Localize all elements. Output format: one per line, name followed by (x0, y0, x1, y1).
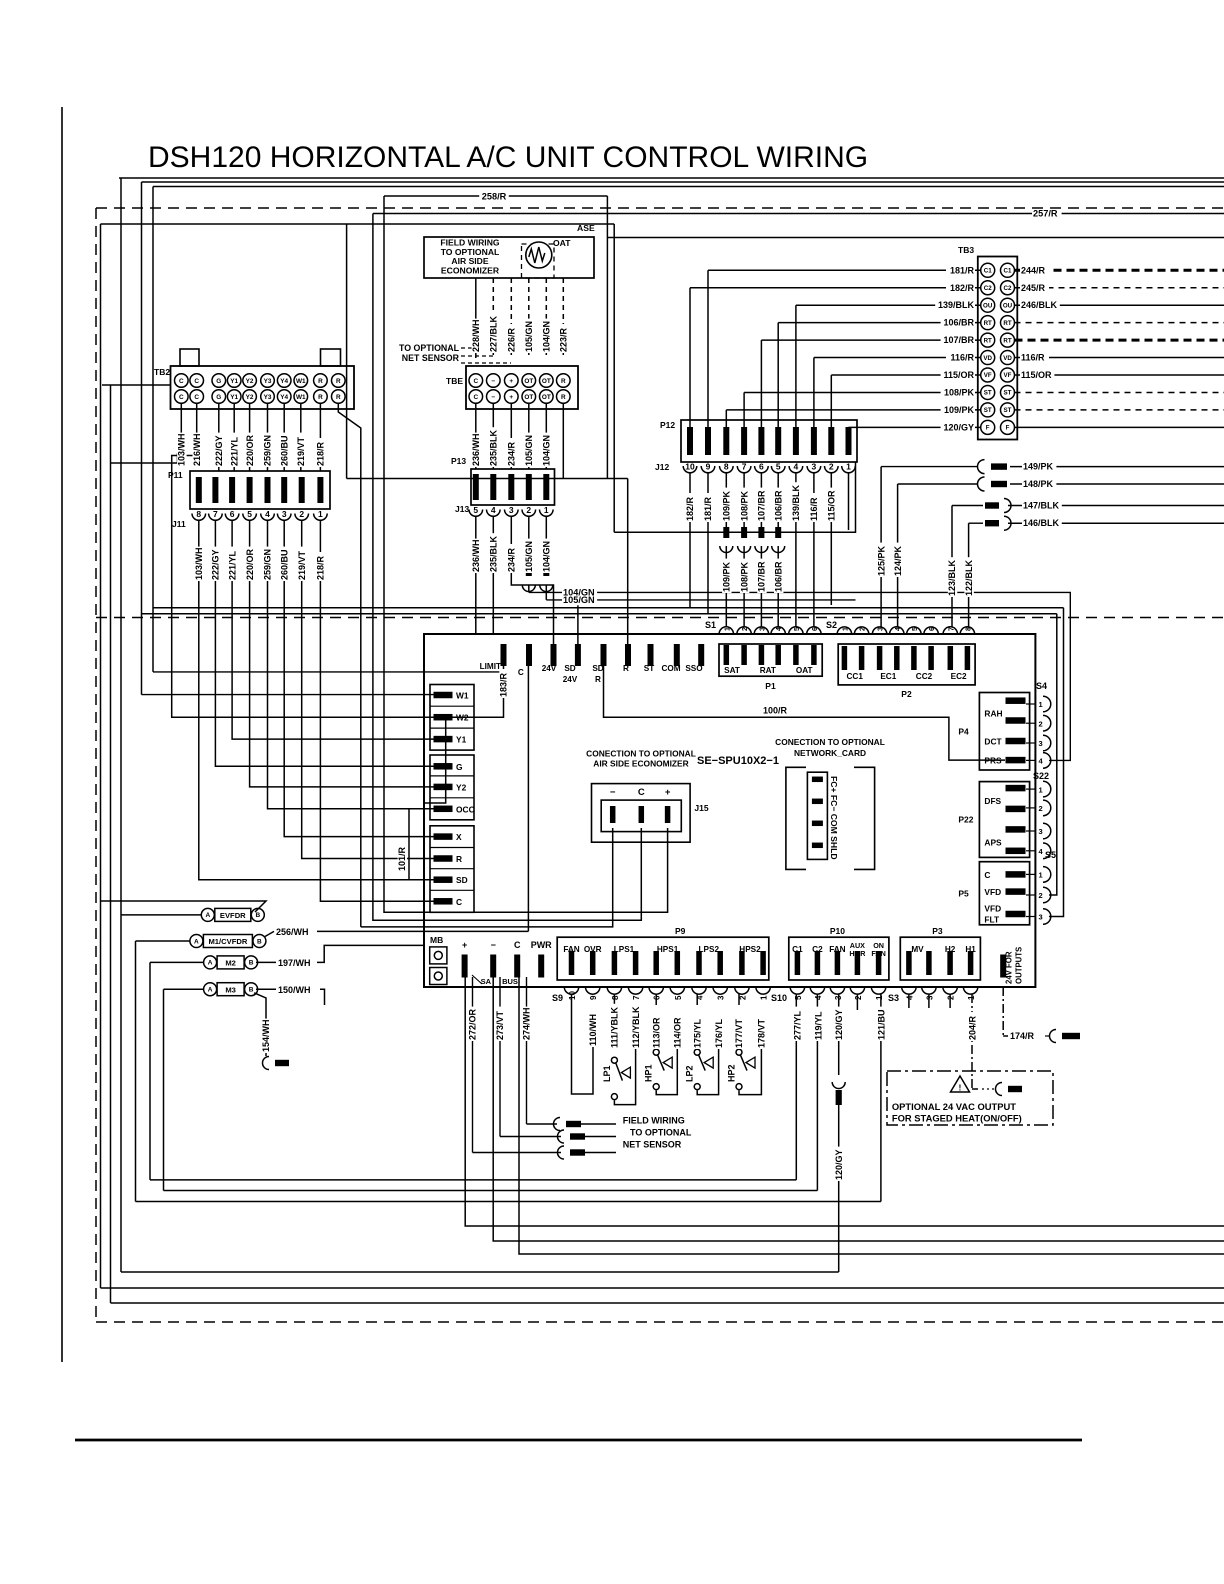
svg-text:3: 3 (509, 505, 514, 515)
svg-text:109/PK: 109/PK (722, 561, 732, 592)
svg-text:259/GN: 259/GN (263, 435, 273, 466)
svg-text:104/GN: 104/GN (542, 321, 552, 352)
svg-text:139/BLK: 139/BLK (938, 300, 975, 310)
svg-text:EVFDR: EVFDR (220, 911, 246, 920)
svg-text:107/BR: 107/BR (757, 561, 767, 592)
svg-text:147/BLK: 147/BLK (1023, 501, 1060, 511)
svg-text:−: − (491, 394, 495, 401)
svg-text:C2: C2 (1004, 285, 1012, 292)
svg-text:C1: C1 (984, 268, 992, 275)
svg-text:1: 1 (724, 627, 731, 631)
svg-text:1: 1 (875, 995, 884, 1000)
svg-text:235/BLK: 235/BLK (489, 429, 499, 466)
svg-text:FAN: FAN (871, 949, 885, 958)
svg-text:NET SENSOR: NET SENSOR (623, 1140, 682, 1150)
svg-text:104/GN: 104/GN (542, 541, 552, 572)
svg-text:R: R (336, 394, 341, 401)
svg-text:2: 2 (860, 627, 867, 631)
svg-text:SAT: SAT (724, 666, 740, 675)
svg-text:115/OR: 115/OR (1021, 370, 1052, 380)
svg-text:OU: OU (983, 302, 993, 309)
svg-text:HGR: HGR (849, 949, 866, 958)
svg-text:CC1: CC1 (847, 672, 864, 681)
svg-text:3: 3 (1039, 739, 1043, 748)
svg-text:1: 1 (842, 627, 849, 631)
svg-text:OCC: OCC (456, 804, 475, 814)
svg-text:8: 8 (611, 995, 620, 1000)
svg-text:P3: P3 (932, 926, 943, 936)
svg-text:R: R (595, 675, 601, 684)
svg-text:AIR SIDE ECONOMIZER: AIR SIDE ECONOMIZER (593, 759, 688, 769)
svg-text:3: 3 (1039, 913, 1043, 922)
svg-text:OVR: OVR (584, 945, 602, 954)
svg-text:DFS: DFS (984, 796, 1001, 806)
svg-text:24V FOR: 24V FOR (1005, 951, 1014, 984)
svg-text:216/WH: 216/WH (192, 433, 202, 466)
svg-text:+: + (509, 394, 513, 401)
svg-text:2: 2 (1039, 719, 1043, 728)
svg-text:Y1: Y1 (230, 378, 238, 385)
svg-text:175/YL: 175/YL (692, 1018, 702, 1048)
svg-text:W1: W1 (296, 394, 306, 401)
svg-text:116/R: 116/R (950, 353, 974, 363)
svg-text:260/BU: 260/BU (279, 549, 289, 580)
svg-text:256/WH: 256/WH (276, 927, 309, 937)
svg-text:Y3: Y3 (264, 378, 272, 385)
svg-text:176/YL: 176/YL (714, 1018, 724, 1048)
svg-text:G: G (456, 762, 463, 772)
svg-text:P5: P5 (958, 888, 969, 898)
svg-text:M2: M2 (225, 959, 236, 968)
svg-text:Y2: Y2 (246, 378, 254, 385)
svg-text:S4: S4 (1036, 681, 1047, 691)
svg-text:SD: SD (456, 875, 468, 885)
svg-text:220/OR: 220/OR (245, 548, 255, 580)
svg-text:C: C (473, 378, 478, 385)
svg-text:5: 5 (794, 995, 803, 1000)
svg-text:P4: P4 (958, 726, 969, 736)
svg-text:197/WH: 197/WH (278, 958, 311, 968)
svg-text:BUS: BUS (502, 977, 518, 986)
svg-text:226/R: 226/R (507, 327, 517, 352)
svg-text:5: 5 (776, 462, 781, 472)
svg-text:8: 8 (965, 627, 972, 631)
svg-text:S22: S22 (1033, 771, 1049, 781)
svg-text:148/PK: 148/PK (1023, 479, 1054, 489)
svg-text:OT: OT (542, 378, 551, 385)
svg-text:120/GY: 120/GY (834, 1149, 844, 1180)
svg-text:1: 1 (760, 995, 769, 1000)
svg-text:4: 4 (794, 462, 799, 472)
svg-text:LP1: LP1 (602, 1065, 612, 1082)
svg-text:105/GN: 105/GN (524, 435, 534, 466)
svg-text:HP2: HP2 (727, 1064, 737, 1082)
svg-text:2: 2 (299, 509, 304, 519)
svg-text:Y4: Y4 (280, 378, 288, 385)
svg-text:1: 1 (967, 995, 976, 1000)
svg-text:TO OPTIONAL: TO OPTIONAL (399, 343, 460, 353)
svg-text:C: C (984, 870, 990, 880)
svg-text:VFD: VFD (984, 904, 1001, 914)
svg-text:H1: H1 (965, 945, 976, 954)
svg-text:5: 5 (473, 505, 478, 515)
svg-text:119/YL: 119/YL (814, 1011, 824, 1040)
svg-text:3: 3 (759, 627, 766, 631)
svg-text:−: − (610, 787, 616, 798)
svg-text:P2: P2 (901, 689, 912, 699)
svg-text:A: A (194, 938, 199, 945)
svg-text:2: 2 (829, 462, 834, 472)
svg-text:PWR: PWR (531, 940, 552, 950)
svg-text:HPS1: HPS1 (657, 945, 679, 954)
svg-text:DCT: DCT (984, 737, 1002, 747)
svg-text:R: R (561, 394, 566, 401)
svg-text:A: A (205, 912, 210, 919)
svg-text:204/R: 204/R (967, 1015, 977, 1040)
svg-text:ST: ST (984, 390, 992, 397)
svg-text:106/BR: 106/BR (773, 561, 783, 592)
svg-text:273/VT: 273/VT (495, 1010, 505, 1040)
svg-text:B: B (249, 987, 254, 994)
svg-text:MV: MV (911, 945, 924, 954)
svg-text:2: 2 (742, 627, 749, 631)
svg-text:103/WH: 103/WH (177, 433, 187, 466)
svg-text:Y1: Y1 (456, 735, 467, 745)
svg-text:177/VT: 177/VT (734, 1018, 744, 1048)
svg-text:4: 4 (814, 995, 823, 1000)
svg-text:TBE: TBE (446, 376, 463, 386)
svg-text:182/R: 182/R (685, 496, 695, 521)
svg-text:Y4: Y4 (280, 394, 288, 401)
svg-text:J13: J13 (455, 504, 469, 514)
svg-text:+: + (509, 378, 513, 385)
svg-text:6: 6 (759, 462, 764, 472)
svg-text:M3: M3 (225, 985, 236, 994)
svg-text:24V: 24V (542, 664, 557, 673)
svg-text:6: 6 (812, 627, 819, 631)
svg-text:G: G (216, 394, 221, 401)
svg-text:110/WH: 110/WH (588, 1014, 598, 1046)
svg-text:J11: J11 (172, 519, 186, 529)
svg-text:122/BLK: 122/BLK (964, 559, 974, 596)
svg-text:CC2: CC2 (916, 672, 933, 681)
svg-text:SSO: SSO (685, 664, 703, 673)
svg-text:P10: P10 (830, 926, 845, 936)
svg-text:123/BLK: 123/BLK (947, 559, 957, 596)
svg-text:6: 6 (929, 627, 936, 631)
svg-text:C: C (514, 940, 521, 950)
svg-text:R: R (561, 378, 566, 385)
svg-text:257/R: 257/R (1033, 209, 1058, 219)
svg-text:6: 6 (230, 509, 235, 519)
svg-text:NETWORK_CARD: NETWORK_CARD (794, 748, 866, 758)
svg-text:B: B (255, 912, 260, 919)
svg-text:C: C (473, 394, 478, 401)
svg-text:1: 1 (1039, 871, 1043, 880)
svg-text:HP1: HP1 (644, 1064, 654, 1082)
svg-text:F: F (1006, 425, 1010, 432)
svg-text:A: A (208, 960, 213, 967)
svg-text:115/OR: 115/OR (943, 370, 974, 380)
svg-text:219/VT: 219/VT (296, 436, 306, 466)
svg-text:TB2: TB2 (154, 367, 170, 377)
svg-text:C: C (179, 378, 184, 385)
svg-text:183/R: 183/R (499, 672, 509, 697)
svg-text:181/R: 181/R (703, 496, 713, 521)
svg-text:221/YL: 221/YL (227, 550, 237, 580)
svg-text:24V: 24V (563, 675, 578, 684)
svg-text:ECONOMIZER: ECONOMIZER (441, 265, 500, 275)
svg-text:105/GN: 105/GN (524, 321, 534, 352)
svg-text:G: G (216, 378, 221, 385)
svg-text:235/BLK: 235/BLK (489, 535, 499, 572)
svg-text:FLT: FLT (984, 915, 1000, 925)
svg-text:218/R: 218/R (316, 441, 326, 466)
svg-text:107/BR: 107/BR (757, 490, 767, 521)
svg-text:VF: VF (984, 372, 992, 379)
svg-text:178/VT: 178/VT (757, 1018, 767, 1048)
svg-text:10: 10 (568, 991, 577, 1000)
svg-text:R: R (336, 378, 341, 385)
svg-text:P13: P13 (451, 456, 466, 466)
svg-text:ST: ST (644, 664, 654, 673)
svg-text:1: 1 (318, 509, 323, 519)
svg-text:4: 4 (696, 995, 705, 1000)
svg-text:R: R (456, 854, 462, 864)
svg-text:R: R (318, 394, 323, 401)
svg-text:3: 3 (812, 462, 817, 472)
svg-text:C: C (456, 897, 462, 907)
svg-text:6: 6 (653, 995, 662, 1000)
svg-text:−: − (491, 378, 495, 385)
svg-text:DSH120 HORIZONTAL A/C UNIT CON: DSH120 HORIZONTAL A/C UNIT CONTROL WIRIN… (148, 141, 868, 174)
svg-text:228/WH: 228/WH (471, 319, 481, 352)
svg-text:C2: C2 (984, 285, 992, 292)
svg-text:C: C (194, 378, 199, 385)
svg-text:Y2: Y2 (456, 782, 467, 792)
svg-text:OUTPUTS: OUTPUTS (1015, 947, 1024, 984)
svg-text:9: 9 (706, 462, 711, 472)
svg-text:LPS2: LPS2 (699, 945, 720, 954)
svg-text:C: C (194, 394, 199, 401)
svg-text:5: 5 (674, 995, 683, 1000)
svg-text:EC2: EC2 (951, 672, 967, 681)
svg-text:1: 1 (1039, 785, 1043, 794)
svg-text:7: 7 (948, 627, 955, 631)
svg-text:106/BR: 106/BR (773, 490, 783, 521)
svg-text:9: 9 (589, 995, 598, 1000)
svg-text:221/YL: 221/YL (229, 436, 239, 466)
svg-text:218/R: 218/R (316, 555, 326, 580)
svg-text:121/BU: 121/BU (876, 1009, 886, 1040)
svg-text:120/GY: 120/GY (943, 422, 974, 432)
svg-text:116/R: 116/R (1021, 353, 1045, 363)
svg-text:245/R: 245/R (1021, 283, 1046, 293)
svg-text:258/R: 258/R (482, 192, 507, 202)
svg-text:MB: MB (430, 935, 443, 945)
svg-text:PRS: PRS (984, 756, 1002, 766)
svg-text:107/BR: 107/BR (943, 335, 974, 345)
svg-text:+: + (462, 940, 467, 950)
svg-text:3: 3 (834, 995, 843, 1000)
svg-text:222/GY: 222/GY (214, 435, 224, 466)
svg-text:P11: P11 (168, 470, 183, 480)
svg-text:R: R (318, 378, 323, 385)
svg-text:109/PK: 109/PK (944, 405, 975, 415)
svg-text:SD: SD (592, 664, 603, 673)
svg-text:3: 3 (878, 627, 885, 631)
svg-text:5: 5 (912, 627, 919, 631)
svg-text:227/BLK: 227/BLK (489, 315, 499, 352)
svg-text:105/GN: 105/GN (524, 541, 534, 572)
svg-text:M1/CVFDR: M1/CVFDR (208, 937, 247, 946)
svg-text:C1: C1 (1004, 268, 1012, 275)
svg-text:LPS1: LPS1 (614, 945, 635, 954)
svg-text:101/R: 101/R (397, 846, 407, 871)
svg-text:236/WH: 236/WH (471, 539, 481, 572)
svg-text:RT: RT (984, 320, 992, 327)
svg-text:C: C (518, 668, 524, 677)
svg-text:APS: APS (984, 838, 1002, 848)
svg-text:ASE: ASE (577, 223, 595, 233)
svg-text:150/WH: 150/WH (278, 985, 311, 995)
svg-text:125/PK: 125/PK (876, 545, 886, 576)
svg-text:TB3: TB3 (958, 245, 974, 255)
svg-text:100/R: 100/R (763, 706, 788, 716)
svg-text:OAT: OAT (796, 666, 813, 675)
svg-text:5: 5 (247, 509, 252, 519)
svg-text:222/GY: 222/GY (211, 549, 221, 580)
svg-text:108/PK: 108/PK (739, 490, 749, 521)
svg-text:F: F (986, 425, 990, 432)
svg-text:7: 7 (213, 509, 218, 519)
svg-text:VFD: VFD (984, 887, 1001, 897)
svg-text:146/BLK: 146/BLK (1023, 518, 1060, 528)
svg-text:S5: S5 (1045, 850, 1056, 860)
svg-text:223/R: 223/R (559, 327, 569, 352)
svg-text:149/PK: 149/PK (1023, 462, 1054, 472)
svg-text:Y1: Y1 (230, 394, 238, 401)
svg-text:P9: P9 (675, 926, 686, 936)
svg-text:OT: OT (542, 394, 551, 401)
svg-text:C1: C1 (792, 945, 803, 954)
svg-text:139/BLK: 139/BLK (791, 484, 801, 521)
svg-text:113/OR: 113/OR (651, 1017, 661, 1048)
svg-text:OPTIONAL 24 VAC OUTPUT: OPTIONAL 24 VAC OUTPUT (892, 1101, 1016, 1112)
svg-text:4: 4 (776, 627, 783, 631)
svg-text:X: X (456, 832, 462, 842)
svg-text:H2: H2 (945, 945, 956, 954)
svg-text:S2: S2 (826, 620, 837, 630)
svg-text:2: 2 (526, 505, 531, 515)
svg-text:3: 3 (717, 995, 726, 1000)
svg-text:RAT: RAT (760, 666, 776, 675)
svg-text:Y3: Y3 (264, 394, 272, 401)
svg-text:S10: S10 (771, 993, 787, 1003)
svg-text:SE−SPU10X2−1: SE−SPU10X2−1 (697, 755, 779, 767)
svg-text:1: 1 (1039, 700, 1043, 709)
svg-text:VF: VF (1004, 372, 1012, 379)
svg-text:EC1: EC1 (880, 672, 896, 681)
svg-text:103/WH: 103/WH (194, 547, 204, 580)
svg-text:219/VT: 219/VT (297, 550, 307, 580)
svg-text:1: 1 (846, 462, 851, 472)
svg-text:FAN: FAN (829, 945, 845, 954)
svg-text:Y2: Y2 (246, 394, 254, 401)
svg-text:OT: OT (524, 394, 533, 401)
svg-text:SA: SA (481, 977, 492, 986)
svg-text:7: 7 (632, 995, 641, 1000)
svg-text:124/PK: 124/PK (893, 545, 903, 576)
svg-text:P1: P1 (765, 681, 776, 691)
svg-text:5: 5 (794, 627, 801, 631)
svg-text:2: 2 (1039, 804, 1043, 813)
svg-text:108/PK: 108/PK (944, 387, 975, 397)
svg-text:B: B (257, 938, 262, 945)
svg-text:3: 3 (282, 509, 287, 519)
svg-text:181/R: 181/R (950, 265, 975, 275)
svg-text:LIMIT: LIMIT (480, 662, 501, 671)
svg-text:234/R: 234/R (507, 547, 517, 572)
svg-text:246/BLK: 246/BLK (1021, 300, 1058, 310)
svg-text:VD: VD (983, 355, 992, 362)
svg-text:116/R: 116/R (809, 497, 819, 521)
svg-text:RT: RT (1003, 320, 1011, 327)
svg-text:3: 3 (1039, 827, 1043, 836)
svg-text:CONECTION TO OPTIONAL: CONECTION TO OPTIONAL (586, 748, 696, 758)
svg-text:FC+ FC− COM SHLD: FC+ FC− COM SHLD (829, 776, 839, 860)
svg-text:B: B (249, 960, 254, 967)
svg-text:A: A (208, 987, 213, 994)
svg-text:4: 4 (905, 995, 914, 1000)
svg-text:106/BR: 106/BR (943, 318, 974, 328)
svg-text:W1: W1 (296, 378, 306, 385)
svg-text:220/OR: 220/OR (245, 434, 255, 466)
svg-text:RAH: RAH (984, 709, 1002, 719)
svg-text:S1: S1 (705, 620, 716, 630)
svg-text:S3: S3 (888, 993, 899, 1003)
svg-text:FIELD WIRING: FIELD WIRING (623, 1116, 685, 1126)
svg-text:W1: W1 (456, 691, 469, 701)
svg-text:C: C (638, 787, 645, 798)
svg-text:260/BU: 260/BU (279, 435, 289, 466)
svg-text:OU: OU (1003, 302, 1013, 309)
svg-text:−: − (491, 940, 496, 950)
svg-text:P12: P12 (660, 420, 675, 430)
svg-text:RT: RT (1003, 337, 1011, 344)
svg-text:ST: ST (1004, 407, 1012, 414)
svg-text:244/R: 244/R (1021, 265, 1046, 275)
svg-text:ST: ST (984, 407, 992, 414)
svg-text:S9: S9 (552, 993, 563, 1003)
svg-text:2: 2 (854, 995, 863, 1000)
svg-text:174/R: 174/R (1010, 1031, 1035, 1041)
svg-text:236/WH: 236/WH (471, 433, 481, 466)
svg-text:3: 3 (925, 995, 934, 1000)
svg-text:154/WH: 154/WH (261, 1019, 271, 1052)
svg-text:2: 2 (738, 995, 747, 1000)
svg-text:259/GN: 259/GN (263, 549, 273, 580)
svg-text:105/GN: 105/GN (563, 595, 595, 605)
svg-text:C: C (179, 394, 184, 401)
svg-text:8: 8 (724, 462, 729, 472)
svg-text:J15: J15 (694, 803, 708, 813)
svg-text:4: 4 (265, 509, 270, 519)
svg-text:120/GY: 120/GY (834, 1009, 844, 1040)
svg-text:8: 8 (196, 509, 201, 519)
svg-text:7: 7 (742, 462, 747, 472)
svg-text:+: + (665, 787, 671, 798)
